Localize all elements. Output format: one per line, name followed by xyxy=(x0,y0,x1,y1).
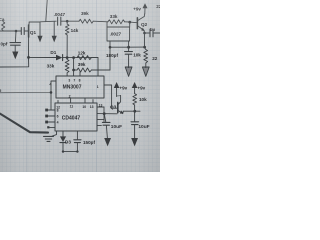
ground arrow (input cap) xyxy=(12,52,18,60)
node Q2 base xyxy=(128,21,131,24)
wire 12k to MN3007 xyxy=(91,58,98,76)
wire rail down to 39k row xyxy=(93,47,110,70)
ground arrow (10uF right) xyxy=(131,138,138,146)
node left column xyxy=(50,91,53,94)
capacitor box .0027 xyxy=(107,27,130,41)
resistor 14k vertical xyxy=(65,21,69,35)
wire shunt branch xyxy=(14,31,17,42)
pin stubs CD4047 right xyxy=(97,106,104,108)
wire rail y47 xyxy=(110,46,145,48)
wire D1 row xyxy=(29,56,57,58)
input resistor Ra (left edge) xyxy=(2,22,5,31)
paper background xyxy=(0,0,160,172)
pin stub MN3007 pin8 top xyxy=(79,72,81,76)
wire input to Q1 base xyxy=(0,30,21,32)
down arrow B (from rail x54) xyxy=(53,21,55,36)
power +9v arrow (Q3) xyxy=(116,87,118,97)
transistor Q3 xyxy=(117,102,119,112)
resistor 39k lower horizontal xyxy=(77,68,91,72)
capacitor 10uF (left) xyxy=(104,114,106,122)
resistor 10k vertical (Q3) xyxy=(133,93,137,105)
wire to left edge xyxy=(0,57,29,67)
pin stubs CD4047 left xyxy=(48,109,55,111)
pin stub MN3007 right pin1 xyxy=(104,85,117,108)
resistor 12k horizontal xyxy=(77,56,91,60)
resistor 33k horizontal xyxy=(108,20,125,24)
pin stub MN3007 left pin4 xyxy=(51,81,56,110)
power +9v arrow (Q2) xyxy=(144,8,146,14)
wire pin7 column xyxy=(73,58,75,76)
down arrow A (from rail x40) xyxy=(39,22,41,36)
pin stubs CD4047 top xyxy=(92,100,94,103)
wire 14k down to D1 row xyxy=(66,35,68,57)
capacitor 10uF (right) xyxy=(131,121,139,123)
capacitor 1u output xyxy=(149,29,151,37)
resistor 10k vertical (right) xyxy=(144,47,148,68)
ground arrow (10k) xyxy=(142,67,149,76)
transistor Q1 xyxy=(28,25,30,37)
capacitor C-shunt xyxy=(10,42,21,44)
thick signal wire diagonal xyxy=(0,114,48,133)
diode D3 xyxy=(62,131,64,136)
capacitor .0047 xyxy=(57,17,59,25)
power +9v arrow (10k) xyxy=(134,87,136,93)
ground arrow (10uF left) xyxy=(104,138,111,146)
wire rail top xyxy=(40,20,56,23)
schematic ink xyxy=(0,0,160,153)
node Q1 emitter xyxy=(27,56,30,59)
pin stub MN3007 bottom pin2 xyxy=(70,98,72,103)
ground arrow (180pf) xyxy=(125,67,132,76)
resistor 33k vertical xyxy=(65,58,69,76)
capacitor C-in series xyxy=(20,28,22,35)
pin stub MN3007 bottom pin6 xyxy=(84,98,86,103)
resistor 39k top horizontal xyxy=(67,20,79,22)
diode D1 xyxy=(56,55,62,61)
capacitor 180pf xyxy=(128,47,130,51)
IC U2 CD4047 box xyxy=(55,103,97,131)
wire Q2 emitter node xyxy=(143,32,146,35)
node base/cap junction xyxy=(103,112,106,115)
wire Q3 emitter xyxy=(123,110,140,112)
wire from top edge xyxy=(46,0,47,21)
wire Q1 emitter down xyxy=(28,37,30,58)
ground symbol (CD4047) xyxy=(44,135,54,137)
pin numbers xyxy=(0,78,102,124)
IC U1 MN3007 box xyxy=(56,76,104,98)
wire input from left edge xyxy=(0,91,51,93)
node input junction xyxy=(15,30,18,33)
vignette overlays xyxy=(0,0,160,172)
node rail/14k xyxy=(66,20,69,23)
transistor Q2 xyxy=(136,18,138,29)
capacitor 150pf xyxy=(76,131,78,140)
wire Q1 collector to rail xyxy=(29,21,40,23)
